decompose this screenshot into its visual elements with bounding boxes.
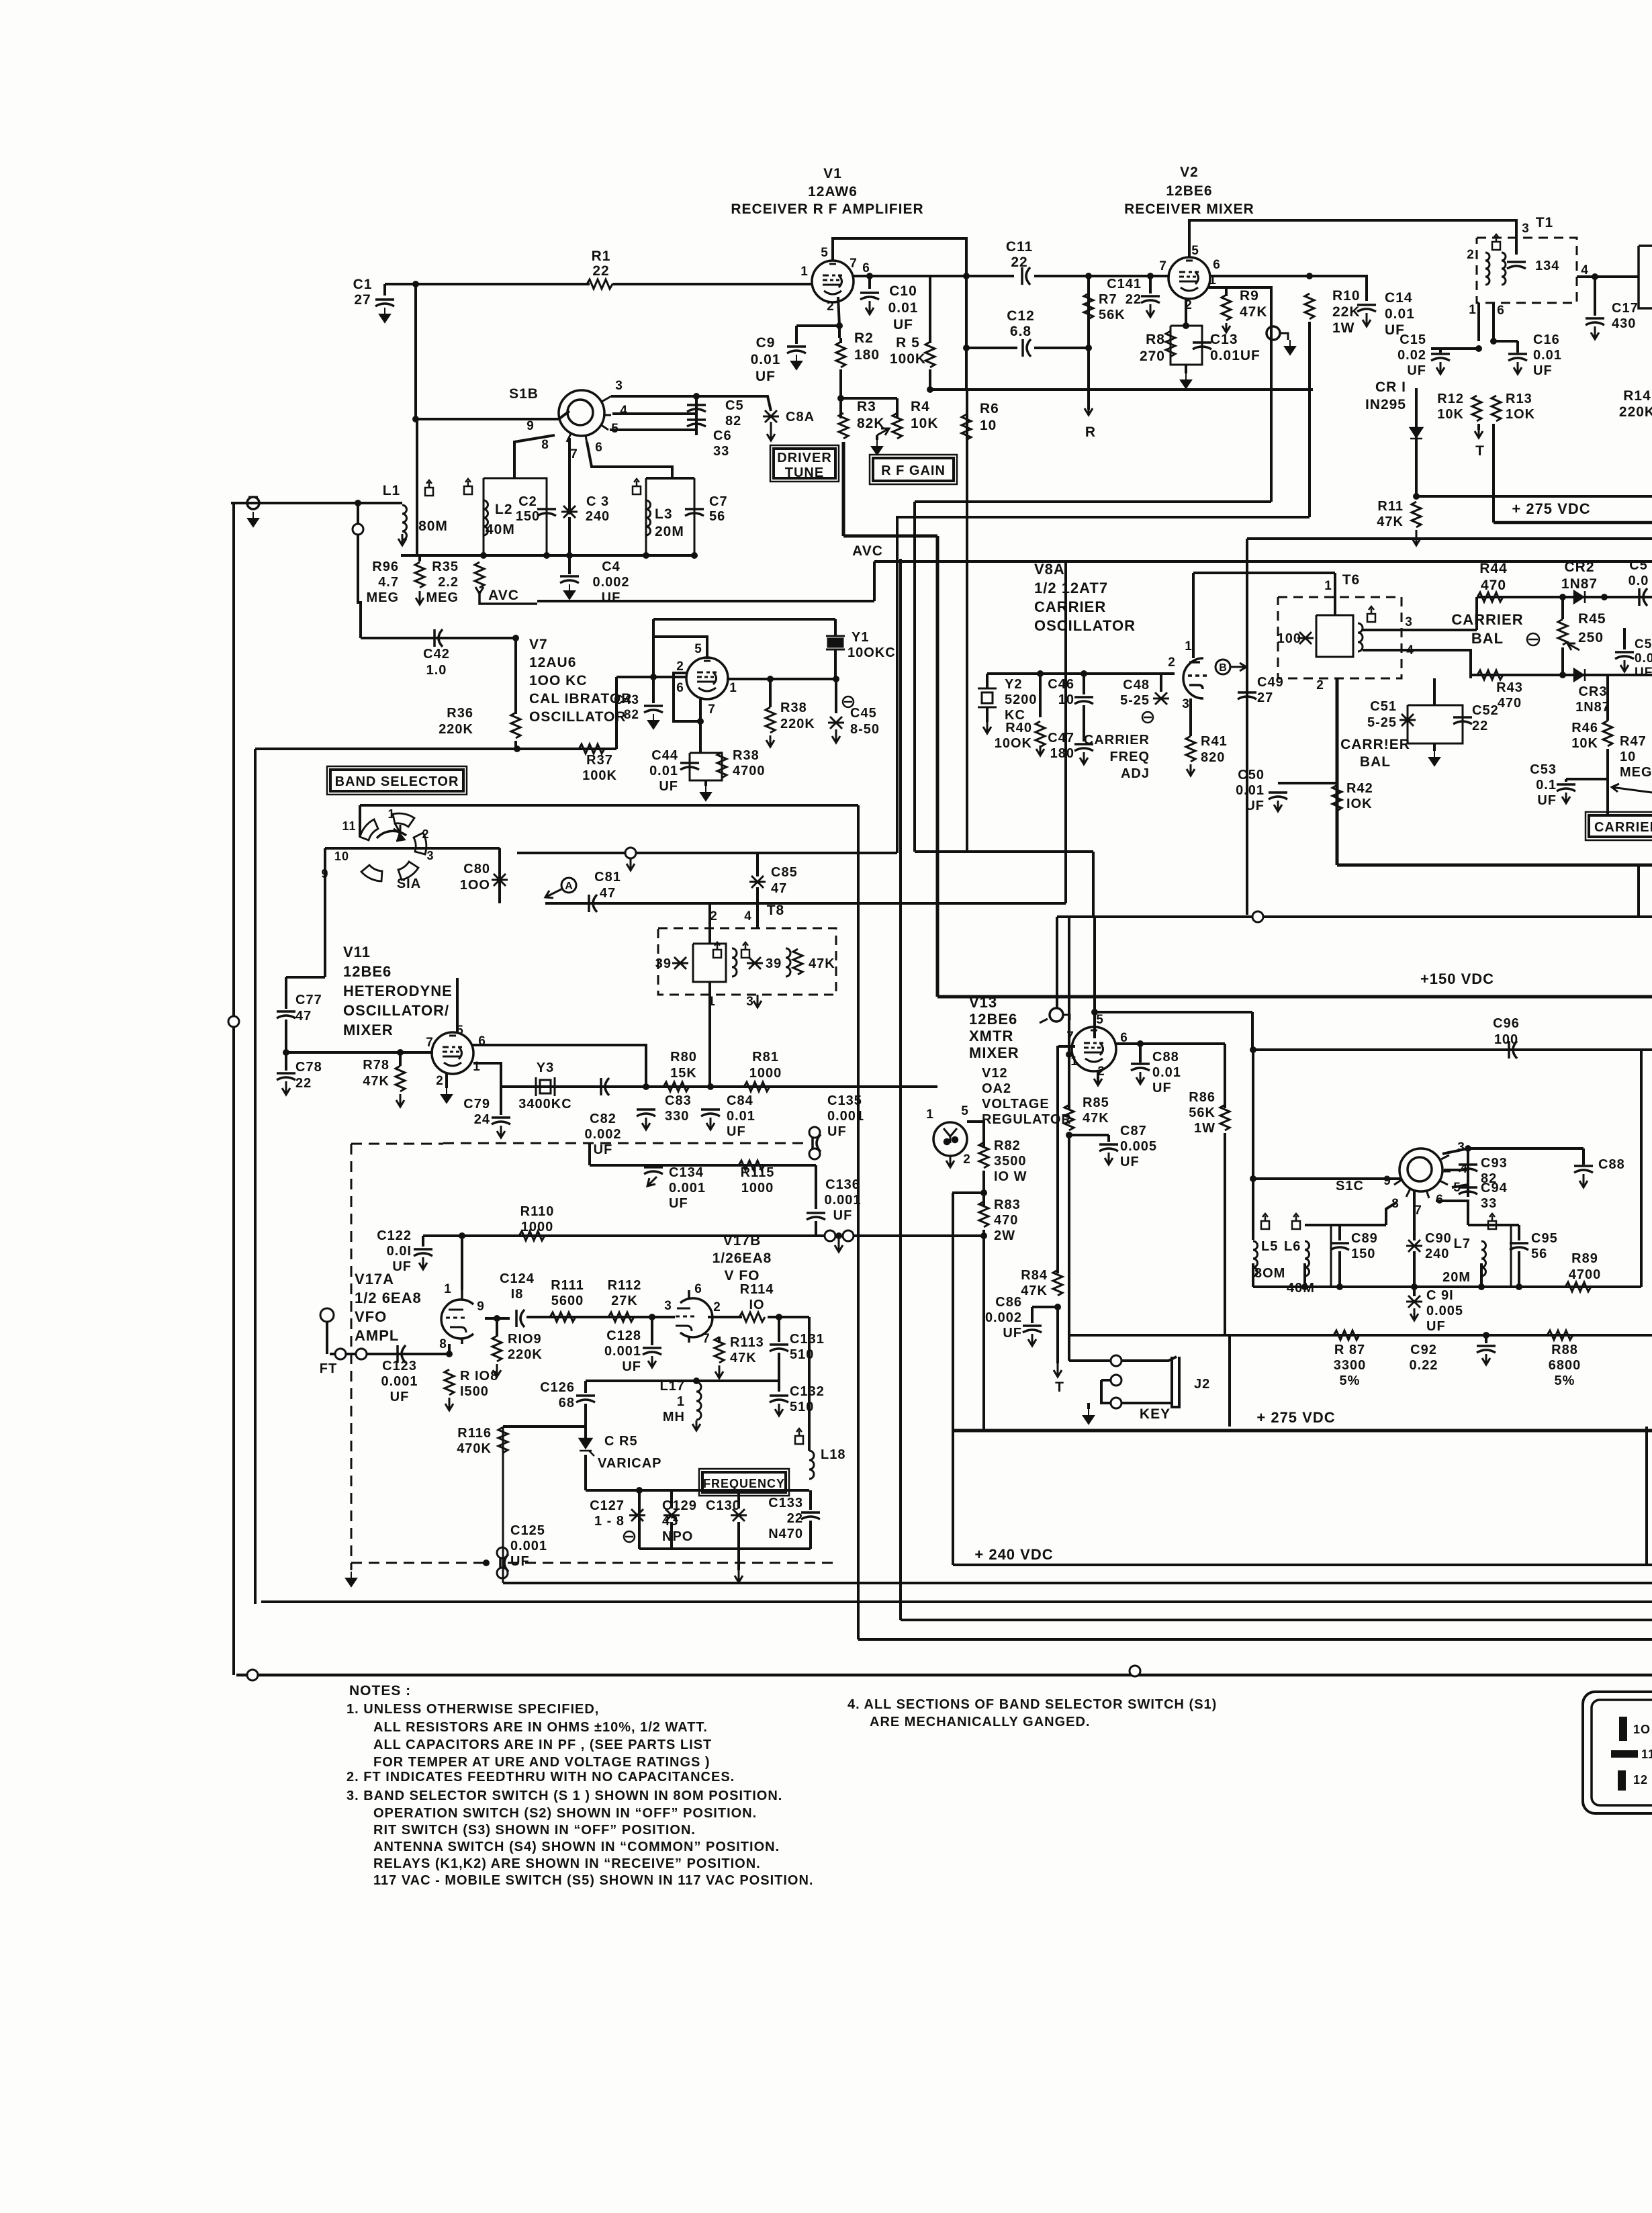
node C96 left [1250, 1046, 1256, 1053]
wire V13 pin2 stub [1097, 1071, 1099, 1083]
capacitor T8 39a [672, 957, 688, 969]
wire R2 bottom [839, 369, 842, 398]
capacitor C127 [629, 1509, 645, 1521]
T8 coil2 [786, 948, 790, 977]
T1 primary coil [1485, 253, 1489, 285]
arrow R47 wiper [1612, 784, 1652, 793]
tube V2 12BE6 [1168, 257, 1210, 299]
legend item 11 [1611, 1750, 1638, 1758]
capacitor C44 [680, 763, 699, 770]
capacitor C45 [828, 717, 844, 729]
ground below R4 wiper [872, 440, 882, 455]
capacitor C3 [561, 506, 578, 518]
wire S1C pin6 link [1436, 1201, 1468, 1225]
svg-text:1: 1 [1185, 639, 1193, 653]
wire R43 line [1471, 674, 1652, 676]
node C131 top [776, 1314, 782, 1320]
wire C46 top [1083, 674, 1085, 694]
resistor R37 [579, 744, 604, 754]
capacitor C130 [731, 1509, 747, 1521]
node bus C95 [1516, 1283, 1522, 1290]
capacitor C124 [516, 1310, 524, 1327]
wire C131 drop [778, 1317, 780, 1342]
wire F drop [326, 1322, 328, 1354]
node VFO bottom [483, 1560, 490, 1566]
svg-text:7: 7 [426, 1036, 434, 1050]
wire R44 line [1477, 596, 1652, 598]
arrow S1A pin1 [394, 823, 400, 833]
wire C136 riser [588, 1143, 591, 1165]
wire VFO dashed bottom [351, 1562, 486, 1564]
capacitor C83 [637, 1110, 655, 1116]
wire V2 pin5 top rail [1189, 220, 1516, 257]
wire T6 pin2 down [1336, 678, 1339, 865]
wire R40 top [1039, 674, 1042, 717]
wire V1 plate to C11 [853, 275, 1014, 277]
capacitor C84 [701, 1110, 720, 1116]
wire C16 tap [1494, 340, 1518, 343]
svg-text:R37100K: R37100K [582, 753, 617, 783]
capacitor C9 [787, 347, 806, 353]
svg-text:L1: L1 [383, 483, 401, 498]
wire C79 riser [500, 1087, 502, 1115]
resistor R45 [1558, 619, 1567, 645]
node bus C3 [566, 552, 573, 559]
parallel C51/C52 box [1408, 705, 1463, 743]
wire 275 riser right [1228, 1335, 1231, 1427]
svg-text:220K: 220K [1619, 404, 1652, 420]
wire C122 stub [422, 1236, 424, 1247]
wire carrier box link [1606, 793, 1609, 815]
svg-text:1: 1 [1469, 303, 1477, 317]
resistor R1 [587, 279, 612, 289]
T6 coil [1358, 623, 1363, 651]
wire left drop [952, 1193, 954, 1565]
wire V1 pin5 to top rail [833, 238, 966, 276]
tube V1 12AW6 [812, 261, 854, 302]
ground below C9 [791, 355, 802, 369]
shield L2 [464, 479, 472, 494]
wire C129 lower [670, 1522, 673, 1549]
label box CARRIER [1589, 815, 1652, 837]
wire V2 plate right [1209, 275, 1310, 277]
capacitor C128 [643, 1348, 661, 1355]
shield T6 [1367, 606, 1375, 622]
resistor R43 [1477, 670, 1503, 680]
svg-text:R8547K: R8547K [1083, 1095, 1109, 1126]
capacitor C126 [576, 1396, 595, 1402]
feedthru C125a [497, 1547, 508, 1558]
wire C15 tap [1431, 347, 1479, 350]
label box RF GAIN [873, 458, 954, 481]
capacitor C134 [644, 1167, 663, 1174]
node S1C feed [1250, 1175, 1256, 1182]
svg-text:3: 3 [1182, 697, 1190, 711]
wire V13 plate [1116, 1042, 1225, 1045]
svg-text:R8447K: R8447K [1021, 1268, 1048, 1298]
capacitor C93 [1459, 1165, 1477, 1171]
resistor R40 [1036, 721, 1045, 747]
wire antenna line [231, 502, 402, 504]
wire R96 [418, 555, 421, 561]
arrow below C134 [647, 1177, 657, 1186]
svg-text:NOTES :: NOTES : [349, 1683, 411, 1699]
node R109 top [494, 1315, 500, 1322]
wire R46 link [1606, 675, 1609, 721]
wire rail 1270 [517, 852, 897, 854]
svg-text:C R5: C R5 [604, 1434, 638, 1449]
wire C53 link [1566, 778, 1608, 780]
wire R86 drop [1224, 1044, 1226, 1108]
capacitor C95 [1510, 1243, 1528, 1250]
terminal B [1215, 660, 1230, 674]
svg-text:CARRIER: CARRIER [1451, 611, 1523, 628]
wire V1 pin2 down [838, 297, 839, 338]
svg-text:AVC: AVC [488, 588, 519, 603]
svg-text:80M: 80M [418, 518, 448, 534]
svg-text:L18: L18 [821, 1447, 845, 1462]
resistor R46 [1603, 721, 1612, 746]
wire V11 pin6 loop [472, 1045, 646, 1087]
wire S1C pin3 [1442, 1148, 1584, 1154]
wire right box edge [1640, 1050, 1643, 1287]
arrow R45 wiper [1567, 643, 1579, 650]
wire CR1 vertical [1415, 388, 1418, 496]
wire R45 bottom link [1561, 647, 1564, 675]
resistor R4 potentiometer [892, 413, 902, 439]
ground key [1083, 1409, 1094, 1424]
arrow below C128 [648, 1356, 656, 1367]
svg-text:39: 39 [655, 956, 672, 971]
arrow below C122 [419, 1257, 427, 1269]
wire C47 link [1083, 705, 1085, 741]
wire c96 drop [1252, 1050, 1254, 1179]
capacitor C4 [560, 576, 579, 583]
wire C42 line [361, 637, 515, 639]
wire FT riser [357, 503, 359, 604]
svg-text:CARRIER: CARRIER [1594, 820, 1652, 835]
wire C87 stub [1107, 1135, 1110, 1142]
wire C16 stub [1516, 341, 1519, 353]
arrow below ft [627, 858, 635, 870]
wire R13 to +275 [1492, 424, 1495, 523]
svg-text:L6: L6 [1284, 1239, 1301, 1254]
inductor L5 [1253, 1241, 1258, 1276]
wire C130 drop [737, 1490, 740, 1508]
wire R38a top [769, 679, 772, 707]
capacitor T6 100 [1297, 632, 1314, 644]
ground below V11 [441, 1088, 452, 1103]
node C43 tap [650, 674, 657, 680]
svg-text:+ 240 VDC: + 240 VDC [974, 1546, 1053, 1563]
svg-text:Y1: Y1 [852, 630, 869, 645]
svg-text:R4610K: R4610K [1571, 721, 1598, 751]
capacitor C88 [1131, 1064, 1150, 1071]
wire L6 bus drop [1303, 1263, 1306, 1287]
svg-text:1: 1 [1324, 579, 1332, 593]
shield L18 [795, 1429, 803, 1444]
svg-text:R116470K: R116470K [457, 1426, 492, 1456]
capacitor C94 [1459, 1187, 1477, 1194]
node C93 top [1465, 1145, 1471, 1152]
wire C11 to V2 grid [1034, 275, 1170, 277]
node bus L3 [643, 552, 649, 559]
svg-text:2: 2 [436, 1074, 444, 1088]
node band feed [514, 746, 520, 752]
svg-text:5: 5 [694, 642, 702, 656]
svg-text:L5: L5 [1261, 1239, 1278, 1254]
crystal Y3 [536, 1077, 555, 1096]
svg-text:1: 1 [926, 1108, 934, 1122]
wire R109 drop [496, 1318, 498, 1337]
AVC box [479, 594, 537, 604]
wire C77 link [285, 977, 287, 1009]
wire key gnd [1087, 1403, 1090, 1409]
arrow below C15 [1436, 362, 1444, 374]
wire T1 pin4 out [1577, 275, 1639, 278]
wire V13 pin7 tap [1058, 1045, 1075, 1048]
wire C81 line [545, 902, 591, 905]
wire V17B pin2 out [708, 1316, 742, 1318]
wire Y1 top [834, 619, 837, 636]
node C12 right [1085, 345, 1092, 351]
wire T drop [1056, 1307, 1059, 1363]
svg-text:2: 2 [713, 1300, 721, 1314]
diode CR2 [1574, 591, 1585, 603]
node C84 top [707, 1083, 714, 1090]
capacitor C141 [1141, 296, 1160, 303]
capacitor C52 [1453, 717, 1472, 724]
wire C86 stub [1031, 1307, 1034, 1323]
wire bank bottom [639, 1547, 811, 1550]
node R38 tap [767, 676, 774, 682]
wire bottom frame [236, 1674, 1652, 1677]
wire VFO top dashed [443, 1142, 803, 1144]
wire C1 node to S1B [414, 284, 417, 419]
svg-text:9: 9 [1383, 1174, 1391, 1188]
wire C48 link [1160, 674, 1162, 692]
arrow below C45 [832, 729, 840, 743]
svg-text:C13: C13 [1210, 332, 1238, 347]
svg-text:5: 5 [821, 246, 829, 260]
feedthru C125b [497, 1568, 508, 1578]
resistor R112 [608, 1312, 634, 1322]
svg-text:6.8: 6.8 [1010, 324, 1031, 339]
resistor R7 [1084, 293, 1093, 319]
arrow from A [545, 889, 561, 898]
wire C95 drop [1518, 1251, 1520, 1287]
wire R83 to bus [982, 1230, 985, 1431]
capacitor C125 [500, 1554, 508, 1572]
tank L2/C2 box [484, 478, 547, 555]
wire AVC to right [537, 600, 874, 602]
svg-text:10OKC: 10OKC [847, 645, 896, 660]
wire CR5 drop [584, 1404, 587, 1439]
wire left branch down [254, 749, 257, 1604]
arrow below C16 [1514, 362, 1522, 374]
tank L2/C2 box left [483, 478, 485, 555]
tank L3/C7 box right [694, 478, 696, 555]
wire key line2 [1121, 1357, 1177, 1361]
wire C89 drop top [1338, 1225, 1341, 1240]
arrow below C47 [1080, 752, 1088, 764]
svg-text:DRIVERTUNE: DRIVERTUNE [777, 451, 832, 480]
wire Y1 down [834, 649, 837, 679]
tube V17B half [676, 1290, 713, 1343]
diode CR1 1N295 [1410, 428, 1422, 439]
wire S1A top [360, 804, 470, 807]
svg-text:3: 3 [1522, 222, 1530, 236]
svg-text:S1B: S1B [509, 386, 539, 402]
wire return riser2 [896, 517, 899, 853]
node R11 tap [1413, 493, 1420, 500]
arrow below R41 [1187, 764, 1195, 776]
svg-text:7: 7 [708, 703, 716, 717]
svg-text:1. UNLESS OTHERWISE SPECIFIE: 1. UNLESS OTHERWISE SPECIFIED, [347, 1702, 599, 1717]
svg-text:C50.0UF: C50.0UF [1635, 637, 1652, 680]
wire C9 tap [796, 324, 839, 327]
wire V7 plate line [727, 678, 836, 680]
svg-text:3: 3 [746, 995, 754, 1009]
wire 275 return rail [1247, 537, 1652, 540]
arrow T bottom [1054, 1363, 1062, 1377]
resistor R8 [1166, 331, 1175, 357]
wire R41 top [1189, 698, 1192, 736]
wire C85 to T8 [756, 887, 759, 928]
wire S1C pin4 stub [1444, 1169, 1468, 1171]
svg-text:2: 2 [1316, 678, 1324, 692]
svg-text:R11227K: R11227K [608, 1278, 642, 1308]
contact key 3 [1111, 1398, 1121, 1408]
resistor R82 [979, 1142, 989, 1168]
capacitor C87 [1099, 1144, 1118, 1151]
node C46 top [1081, 670, 1087, 677]
svg-text:8OM: 8OM [1254, 1266, 1285, 1281]
svg-text:R7: R7 [1099, 292, 1117, 307]
wire V2 pin1 to return [1226, 287, 1271, 502]
wire V7 pin5 link [653, 637, 707, 659]
svg-text:KEY: KEY [1140, 1406, 1171, 1422]
svg-text:4: 4 [620, 404, 628, 418]
capacitor C8A [763, 410, 779, 422]
wire C12 rail right [1034, 347, 1089, 349]
wire cal plate riser [514, 638, 517, 714]
wire V11 pin5 riser [456, 978, 459, 1033]
arrow below C86 [1028, 1334, 1036, 1346]
theta C45 [843, 696, 854, 707]
VFO dashed box top [351, 1143, 443, 1145]
ground VFO box [346, 1572, 357, 1586]
resistor R108 [445, 1369, 454, 1395]
tube V17A half [441, 1290, 473, 1344]
svg-text:R42IOK: R42IOK [1346, 781, 1373, 811]
capacitor C132 [770, 1396, 788, 1402]
wire V17A pin8 drop [448, 1344, 451, 1354]
arrow T8 pin3 [753, 995, 762, 1007]
ground below C44 box [700, 786, 711, 801]
svg-text:11: 11 [342, 819, 356, 833]
svg-text:S1C: S1C [1336, 1179, 1364, 1193]
wire cap bank top [586, 1489, 809, 1492]
node C83 top [643, 1083, 649, 1090]
wire R8C13 ground [1185, 365, 1187, 373]
svg-text:C8A: C8A [786, 410, 815, 424]
svg-text:6: 6 [595, 441, 603, 455]
wire V17A pin9 [485, 1317, 510, 1320]
svg-text:FT: FT [320, 1361, 337, 1376]
node bus L2 [480, 552, 487, 559]
wire C126 drop [584, 1381, 587, 1393]
tank L7/C95 box [1484, 1225, 1511, 1287]
wire R36 lower [514, 741, 517, 749]
wire S1B pin3 [611, 396, 771, 411]
wire C80 drop [498, 848, 501, 903]
capacitor C46 [1074, 697, 1093, 704]
svg-text:7: 7 [570, 447, 578, 461]
svg-text:1: 1 [1070, 1054, 1079, 1069]
svg-text:3: 3 [1457, 1140, 1465, 1155]
wire mid rail [1416, 495, 1652, 498]
wire 275 return riser [1246, 539, 1248, 915]
tank L3/C7 box top [646, 477, 694, 480]
label box BAND SELECTOR [330, 770, 463, 791]
svg-text:BAL: BAL [1471, 630, 1504, 647]
tube V7 12AU6 [686, 658, 728, 699]
wire rail 1268 [915, 850, 1093, 853]
diode CR3 [1574, 669, 1585, 681]
node C5 top [693, 393, 700, 400]
capacitor C55 [1615, 652, 1634, 659]
resistor R86 [1220, 1105, 1230, 1130]
node C128 top [649, 1314, 655, 1320]
svg-text:12BE6: 12BE6 [1166, 183, 1212, 199]
wire R37 line [517, 748, 616, 750]
wire S1B pin7 down [568, 438, 571, 514]
svg-text:8: 8 [439, 1337, 447, 1351]
tank L3/C7 box [645, 478, 647, 555]
wire key line4 [1101, 1379, 1111, 1382]
wire C55 stub [1623, 628, 1626, 649]
resistor R116 [498, 1427, 508, 1453]
wire L17 rail [586, 1380, 779, 1382]
svg-text:12AW6: 12AW6 [808, 184, 858, 199]
crystal Y2 [978, 688, 997, 707]
inductor L17 [696, 1382, 701, 1420]
resistor R10 [1305, 293, 1314, 319]
svg-text:22: 22 [1011, 255, 1027, 270]
wire long return [915, 500, 1271, 503]
wire C15 stub [1439, 349, 1442, 353]
arrow below C50 [1274, 801, 1282, 811]
wire riser 1628 [1092, 852, 1095, 915]
wire C141 stub [1149, 276, 1152, 293]
rotary switch S1C [1394, 1148, 1451, 1198]
legend item 12 [1618, 1770, 1626, 1791]
svg-text:8: 8 [541, 438, 549, 452]
svg-text:C920.22: C920.22 [1410, 1343, 1438, 1373]
wire V8A top riser [1192, 573, 1195, 658]
svg-text:T: T [1475, 443, 1485, 459]
wire R113 drop [718, 1337, 721, 1343]
arrow bank bottom [735, 1570, 743, 1582]
wire C131 lower [778, 1353, 780, 1392]
wire carrier left riser [1475, 597, 1478, 630]
arrow below C88 [1136, 1072, 1144, 1084]
arrow below C84 [706, 1118, 715, 1130]
wire S1C pin8 drop [1386, 1202, 1397, 1225]
arrow R [1085, 390, 1093, 415]
capacitor T1 tuning [1507, 262, 1526, 269]
